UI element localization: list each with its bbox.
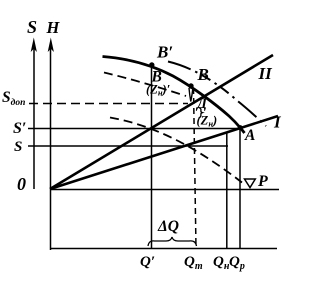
- S prime horizontal line: [28, 128, 241, 130]
- svg-text:Qн: Qн: [213, 254, 230, 272]
- small brace below D: [199, 108, 203, 118]
- svg-text:ΔQ: ΔQ: [157, 218, 179, 235]
- svg-text:S: S: [27, 17, 37, 37]
- bottom axis Q: [50, 248, 277, 250]
- line II system curve: [50, 55, 273, 189]
- P level horizontal line: [50, 189, 279, 191]
- svg-text:Sдоп: Sдоп: [2, 89, 25, 108]
- svg-text:(Zн): (Zн): [197, 114, 218, 129]
- point B prime dot: [149, 62, 154, 67]
- line I system curve: [50, 116, 278, 189]
- axis S arrowhead: [31, 38, 37, 53]
- axis H vertical line: [50, 44, 52, 250]
- svg-text:II: II: [258, 64, 274, 83]
- vertical line Qn: [226, 132, 228, 249]
- horizontal curly brace delta Q: [148, 237, 197, 246]
- vertical dashed line Qt: [194, 88, 197, 249]
- axis S vertical line: [33, 44, 35, 189]
- svg-text:S: S: [14, 139, 22, 155]
- pump curve C1 solid: [103, 57, 245, 134]
- point A dot: [238, 125, 243, 130]
- vertical line Qp: [239, 128, 241, 249]
- brace between B and D point: [189, 88, 193, 102]
- S horizontal line: [28, 145, 228, 147]
- svg-text:Q′: Q′: [140, 254, 155, 270]
- dashed curve D2: [110, 118, 242, 183]
- svg-text:B′: B′: [156, 43, 173, 62]
- pump curve C2 dash-dot: [168, 62, 266, 127]
- axis H arrowhead: [48, 38, 54, 53]
- svg-text:S′: S′: [13, 120, 26, 137]
- svg-text:A: A: [244, 127, 255, 144]
- S_dop dashed horizontal line: [29, 103, 188, 105]
- svg-text:0: 0: [17, 174, 26, 194]
- svg-text:I: I: [273, 113, 282, 132]
- svg-text:B: B: [197, 65, 209, 84]
- vertical line Q prime: [151, 65, 153, 249]
- dashed curve D1: [104, 73, 186, 97]
- svg-text:Qт: Qт: [184, 254, 203, 272]
- svg-text:P: P: [257, 173, 268, 190]
- nabla P water level triangle: [245, 179, 256, 188]
- point B dot: [188, 83, 193, 88]
- svg-text:H: H: [46, 18, 61, 37]
- svg-text:Qр: Qр: [229, 254, 245, 272]
